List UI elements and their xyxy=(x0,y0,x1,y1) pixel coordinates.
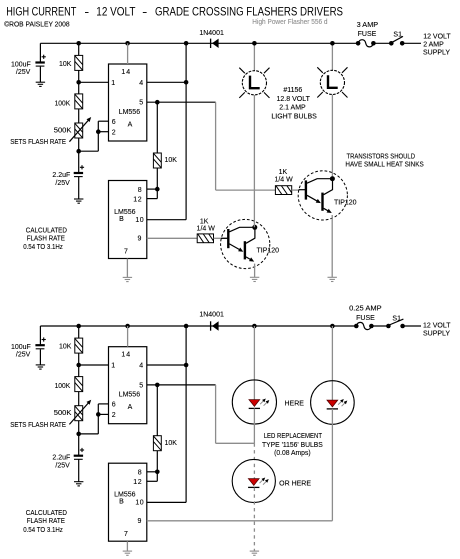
node pin1 xyxy=(76,80,81,85)
svg-text:10: 10 xyxy=(135,500,144,507)
svg-text:10K: 10K xyxy=(165,157,178,164)
svg-text:LM556: LM556 xyxy=(114,209,136,216)
switch S1 (bottom) xyxy=(386,319,405,328)
wire pin1' xyxy=(79,364,109,366)
wire pin14 stem xyxy=(127,43,129,64)
node bus' / LED2 xyxy=(330,324,335,329)
note heat sinks xyxy=(345,153,424,168)
svg-text:A: A xyxy=(128,122,133,129)
node pin4 / rail xyxy=(184,80,189,85)
wire pin9' to LED2 xyxy=(147,520,333,522)
svg-text:14: 14 xyxy=(121,69,131,76)
svg-text:SUPPLY: SUPPLY xyxy=(423,330,450,337)
led LED1 symbol xyxy=(249,399,270,409)
title xyxy=(6,6,343,18)
svg-text:10: 10 xyxy=(135,217,144,224)
wire dashed alternate lower xyxy=(253,488,255,551)
svg-text:2: 2 xyxy=(112,412,116,419)
capacitor C2' 2.2uF xyxy=(52,448,84,470)
transistor Q1 TIP120 xyxy=(221,219,270,268)
svg-text:9: 9 xyxy=(138,236,142,243)
led LED2 circle xyxy=(311,381,355,425)
ground U1B pin7 xyxy=(123,277,132,281)
wiper arrow R3 xyxy=(69,117,91,142)
svg-text:500K: 500K xyxy=(54,410,72,417)
svg-text:3 AMP: 3 AMP xyxy=(357,22,379,29)
wire pin1 xyxy=(79,81,109,83)
resistor R4' 10K xyxy=(153,385,161,472)
wire pin12 xyxy=(147,189,158,199)
ground C2' xyxy=(74,482,83,486)
diode D2 1N4001 xyxy=(211,321,219,330)
node bus / LP1 xyxy=(252,41,257,46)
svg-text:LM556: LM556 xyxy=(114,492,136,499)
svg-text:LM556: LM556 xyxy=(119,109,141,116)
svg-text:0.54 TO 3.1Hz: 0.54 TO 3.1Hz xyxy=(23,527,63,534)
wire +12V bus' left segment xyxy=(40,325,356,327)
node pin8' xyxy=(155,470,160,475)
ground C1 xyxy=(36,82,45,86)
label LED replacement xyxy=(262,433,323,457)
wire dashed alternate upper xyxy=(253,443,255,478)
svg-text:2.2uF: 2.2uF xyxy=(52,172,70,179)
svg-text:OR HERE: OR HERE xyxy=(279,480,311,487)
label F1 xyxy=(357,22,379,38)
label R6 1K xyxy=(274,169,293,184)
resistor R2' 100K xyxy=(75,365,83,406)
resistor R5 1K xyxy=(197,234,215,243)
wire to supply xyxy=(402,42,421,44)
svg-text:FUSE: FUSE xyxy=(356,315,375,322)
svg-text:LIGHT BULBS: LIGHT BULBS xyxy=(271,113,317,120)
node pin5' xyxy=(155,383,160,388)
label bulb type xyxy=(271,87,317,121)
wire LED2 bottom xyxy=(331,409,333,521)
switch S1 xyxy=(389,36,405,45)
wire pin10 xyxy=(147,219,186,221)
capacitor C1 100uF xyxy=(11,55,46,76)
wire pin8 xyxy=(147,188,158,190)
label F2 xyxy=(349,306,382,323)
wire pin12' xyxy=(147,472,158,482)
wire fuse to switch xyxy=(373,42,391,44)
svg-text:TIP120: TIP120 xyxy=(257,248,280,255)
label supply top xyxy=(423,33,451,56)
wire LED1 top xyxy=(253,326,255,400)
lamp LP1 xyxy=(239,68,269,98)
svg-text:-: - xyxy=(84,6,89,18)
svg-text:/25V: /25V xyxy=(16,69,31,76)
ground C1' xyxy=(36,365,45,369)
wire fuse' to switch' xyxy=(371,325,388,327)
svg-text:HIGH CURRENT: HIGH CURRENT xyxy=(6,6,76,18)
wire bulb LP1 top xyxy=(253,43,255,70)
wire to supply' xyxy=(403,325,421,327)
svg-text:1/4 W: 1/4 W xyxy=(197,226,216,233)
svg-text:2.2uF: 2.2uF xyxy=(52,455,70,462)
wire R6 to Q2 base xyxy=(292,189,299,191)
svg-text:1: 1 xyxy=(111,363,115,370)
svg-text:12 VOLT: 12 VOLT xyxy=(96,6,135,18)
svg-text:FLASH RATE: FLASH RATE xyxy=(27,236,65,243)
svg-text:SETS FLASH RATE: SETS FLASH RATE xyxy=(10,422,66,429)
svg-text:5: 5 xyxy=(139,100,143,107)
svg-text:FLASH RATE: FLASH RATE xyxy=(27,518,65,525)
svg-text:B: B xyxy=(119,499,124,506)
svg-text:1N4001: 1N4001 xyxy=(199,30,224,37)
svg-text:6: 6 xyxy=(112,402,116,409)
svg-text:12 VOLT: 12 VOLT xyxy=(423,33,451,40)
node R3'/C2 junction xyxy=(76,432,81,437)
wire pin8' xyxy=(147,471,158,473)
svg-text:1K: 1K xyxy=(279,169,288,176)
svg-text:6: 6 xyxy=(112,119,116,126)
svg-text:B: B xyxy=(119,216,124,223)
node bus / pin14 junction xyxy=(125,41,130,46)
wire pin5' vertical xyxy=(215,385,217,443)
svg-text:CALCULATED: CALCULATED xyxy=(26,227,67,234)
svg-text:8: 8 xyxy=(138,470,142,477)
svg-text:100uF: 100uF xyxy=(11,344,31,351)
wire pin5 vertical xyxy=(215,102,217,190)
svg-text:100K: 100K xyxy=(55,383,71,390)
diode D1 1N4001 xyxy=(211,39,219,48)
node bus' / R-chain junction xyxy=(76,324,81,329)
svg-text:12 VOLT: 12 VOLT xyxy=(423,322,451,329)
svg-text:1N4001: 1N4001 xyxy=(199,311,224,318)
svg-text:9: 9 xyxy=(138,518,142,525)
svg-text:10K: 10K xyxy=(59,61,72,68)
capacitor C1 100uF wire xyxy=(39,43,41,82)
led LED3 symbol xyxy=(248,478,269,488)
svg-text:GRADE CROSSING FLASHERS DRIVER: GRADE CROSSING FLASHERS DRIVERS xyxy=(155,6,343,18)
node pin5 xyxy=(155,100,160,105)
wire R5 to Q1 base xyxy=(214,237,228,239)
node bus' / vertical rail junction xyxy=(184,324,189,329)
wire LED2 top xyxy=(331,326,333,400)
svg-text:500K: 500K xyxy=(54,128,72,135)
node pins 2-6 tie' xyxy=(96,412,101,417)
svg-text:12: 12 xyxy=(133,196,142,203)
wire vertical rail xyxy=(185,43,187,219)
led LED1 circle xyxy=(232,380,276,424)
ground U2B pin7 xyxy=(123,551,132,555)
svg-text:SUPPLY: SUPPLY xyxy=(423,49,450,56)
wire LED1 bottom xyxy=(253,408,255,443)
node pin8 xyxy=(155,187,160,192)
svg-text:SETS FLASH RATE: SETS FLASH RATE xyxy=(10,139,66,146)
svg-text:1/4 W: 1/4 W xyxy=(274,177,293,184)
capacitor C2' 2.2uF wire xyxy=(78,434,80,482)
op-amp U1B LM556 body xyxy=(109,181,147,259)
potentiometer R3 500K xyxy=(75,123,83,151)
wire pot to pin2' xyxy=(79,404,109,434)
resistor R6 1K xyxy=(275,186,293,195)
svg-text:HERE: HERE xyxy=(284,401,304,408)
node pin4 / rail' xyxy=(184,363,189,368)
node pins 2-6 tie xyxy=(96,129,101,134)
op-amp U1B' LM556 body xyxy=(109,463,147,541)
potentiometer R3' 500K xyxy=(75,406,83,434)
svg-text:/25V: /25V xyxy=(16,352,31,359)
resistor R1' 10K xyxy=(75,326,83,365)
wire pin14 stem' xyxy=(127,326,129,347)
node R3/C2 junction xyxy=(76,149,81,154)
wire U1B pin7 xyxy=(126,259,128,278)
svg-text:S1: S1 xyxy=(393,32,402,39)
svg-text:LM556: LM556 xyxy=(119,392,141,399)
node pin1' xyxy=(76,363,81,368)
svg-text:LED REPLACEMENT: LED REPLACEMENT xyxy=(264,433,323,440)
svg-text:0.25 AMP: 0.25 AMP xyxy=(349,306,382,313)
resistor R2 100K xyxy=(75,82,83,123)
capacitor C2 2.2uF wire xyxy=(78,151,80,199)
wire vertical rail' xyxy=(185,326,187,502)
wiper arrow R3' xyxy=(69,400,91,425)
node bus' / LED1 xyxy=(252,324,257,329)
led LED2 symbol xyxy=(327,399,348,409)
svg-text:4: 4 xyxy=(139,363,143,370)
svg-text:5: 5 xyxy=(139,382,143,389)
capacitor C2 2.2uF xyxy=(52,165,84,187)
svg-text:TIP120: TIP120 xyxy=(334,199,357,206)
svg-text:2.1 AMP: 2.1 AMP xyxy=(279,105,306,112)
capacitor C1' 100uF xyxy=(11,337,46,358)
label supply bottom xyxy=(423,322,451,337)
svg-text:-: - xyxy=(142,6,147,18)
svg-text:2: 2 xyxy=(112,129,116,136)
svg-text:14: 14 xyxy=(121,352,131,359)
resistor R4 10K xyxy=(153,102,161,189)
svg-text:1K: 1K xyxy=(200,219,209,226)
wire bulb LP2 top xyxy=(331,43,333,70)
led LED3 circle xyxy=(232,459,275,502)
capacitor C1' 100uF wire xyxy=(39,326,41,365)
label R5 1K xyxy=(197,219,216,233)
svg-text:TRANSISTORS SHOULD: TRANSISTORS SHOULD xyxy=(347,153,416,160)
svg-text:FUSE: FUSE xyxy=(358,31,377,38)
svg-text:A: A xyxy=(128,404,133,411)
node bus / LP2 xyxy=(330,41,335,46)
wire LP2 to Q2 collector xyxy=(331,95,333,179)
svg-text:4: 4 xyxy=(139,80,143,87)
wire pin10' xyxy=(147,501,186,503)
fuse F1 3 AMP xyxy=(356,40,376,47)
svg-text:TYPE '1156' BULBS: TYPE '1156' BULBS xyxy=(262,442,323,449)
svg-text:/25V: /25V xyxy=(55,463,70,470)
wire LP1 to Q1 collector xyxy=(253,95,255,227)
svg-text:7: 7 xyxy=(124,531,128,538)
ground C2 xyxy=(74,199,83,203)
svg-text:(0.08 Amps): (0.08 Amps) xyxy=(274,450,311,457)
wire +12V bus left segment xyxy=(40,42,358,44)
svg-text:S1: S1 xyxy=(392,316,401,323)
wire Q1 emitter xyxy=(254,264,256,278)
wire pot to pin2 xyxy=(79,121,109,151)
node bus / vertical rail junction xyxy=(184,41,189,46)
svg-text:1: 1 xyxy=(111,80,115,87)
svg-text:©ROB PAISLEY 2008: ©ROB PAISLEY 2008 xyxy=(4,20,69,28)
svg-text:0.54 TO 3.1Hz: 0.54 TO 3.1Hz xyxy=(23,244,63,251)
svg-text:10K: 10K xyxy=(59,344,72,351)
label calculated flash rate' xyxy=(23,510,67,534)
svg-text:100K: 100K xyxy=(55,101,71,108)
lamp LP2 xyxy=(317,67,347,97)
wire Q2 emitter xyxy=(331,215,333,277)
wire pin5 xyxy=(147,101,216,103)
ground Q2 xyxy=(328,277,337,281)
svg-text:12: 12 xyxy=(133,479,142,486)
svg-text:8: 8 xyxy=(138,187,142,194)
wire pin5 to R6 xyxy=(216,189,276,191)
fuse F2 0.25 AMP xyxy=(354,322,374,329)
svg-text:12.8 VOLT: 12.8 VOLT xyxy=(277,96,311,103)
node bus / R-chain junction xyxy=(76,41,81,46)
svg-text:/25V: /25V xyxy=(55,180,70,187)
ground alternate path xyxy=(250,551,259,555)
svg-text:100uF: 100uF xyxy=(11,62,31,69)
op-amp U1A' LM556 body xyxy=(109,347,147,424)
op-amp U1A LM556 body xyxy=(109,64,147,141)
ground Q1 xyxy=(250,277,259,281)
svg-text:10K: 10K xyxy=(165,440,178,447)
svg-text:7: 7 xyxy=(124,248,128,255)
wire pin5' xyxy=(147,384,216,386)
svg-text:HAVE SMALL HEAT SINKS: HAVE SMALL HEAT SINKS xyxy=(345,161,424,168)
node bus' / pin14 junction xyxy=(125,324,130,329)
svg-text:CALCULATED: CALCULATED xyxy=(26,510,67,517)
resistor R1 10K xyxy=(75,43,83,82)
wire pin4 xyxy=(147,81,186,83)
svg-text:#1156: #1156 xyxy=(283,87,302,94)
label calculated flash rate xyxy=(23,227,67,251)
wire pin4' xyxy=(147,364,186,366)
transistor Q2 TIP120 xyxy=(298,171,347,220)
wire U2B pin7 xyxy=(126,541,128,551)
wire pin9 to R5 xyxy=(147,237,197,239)
svg-text:High Power Flasher 556 d: High Power Flasher 556 d xyxy=(252,19,327,26)
wire pin5' to LED1 xyxy=(216,442,255,444)
svg-text:2 AMP: 2 AMP xyxy=(423,41,444,48)
